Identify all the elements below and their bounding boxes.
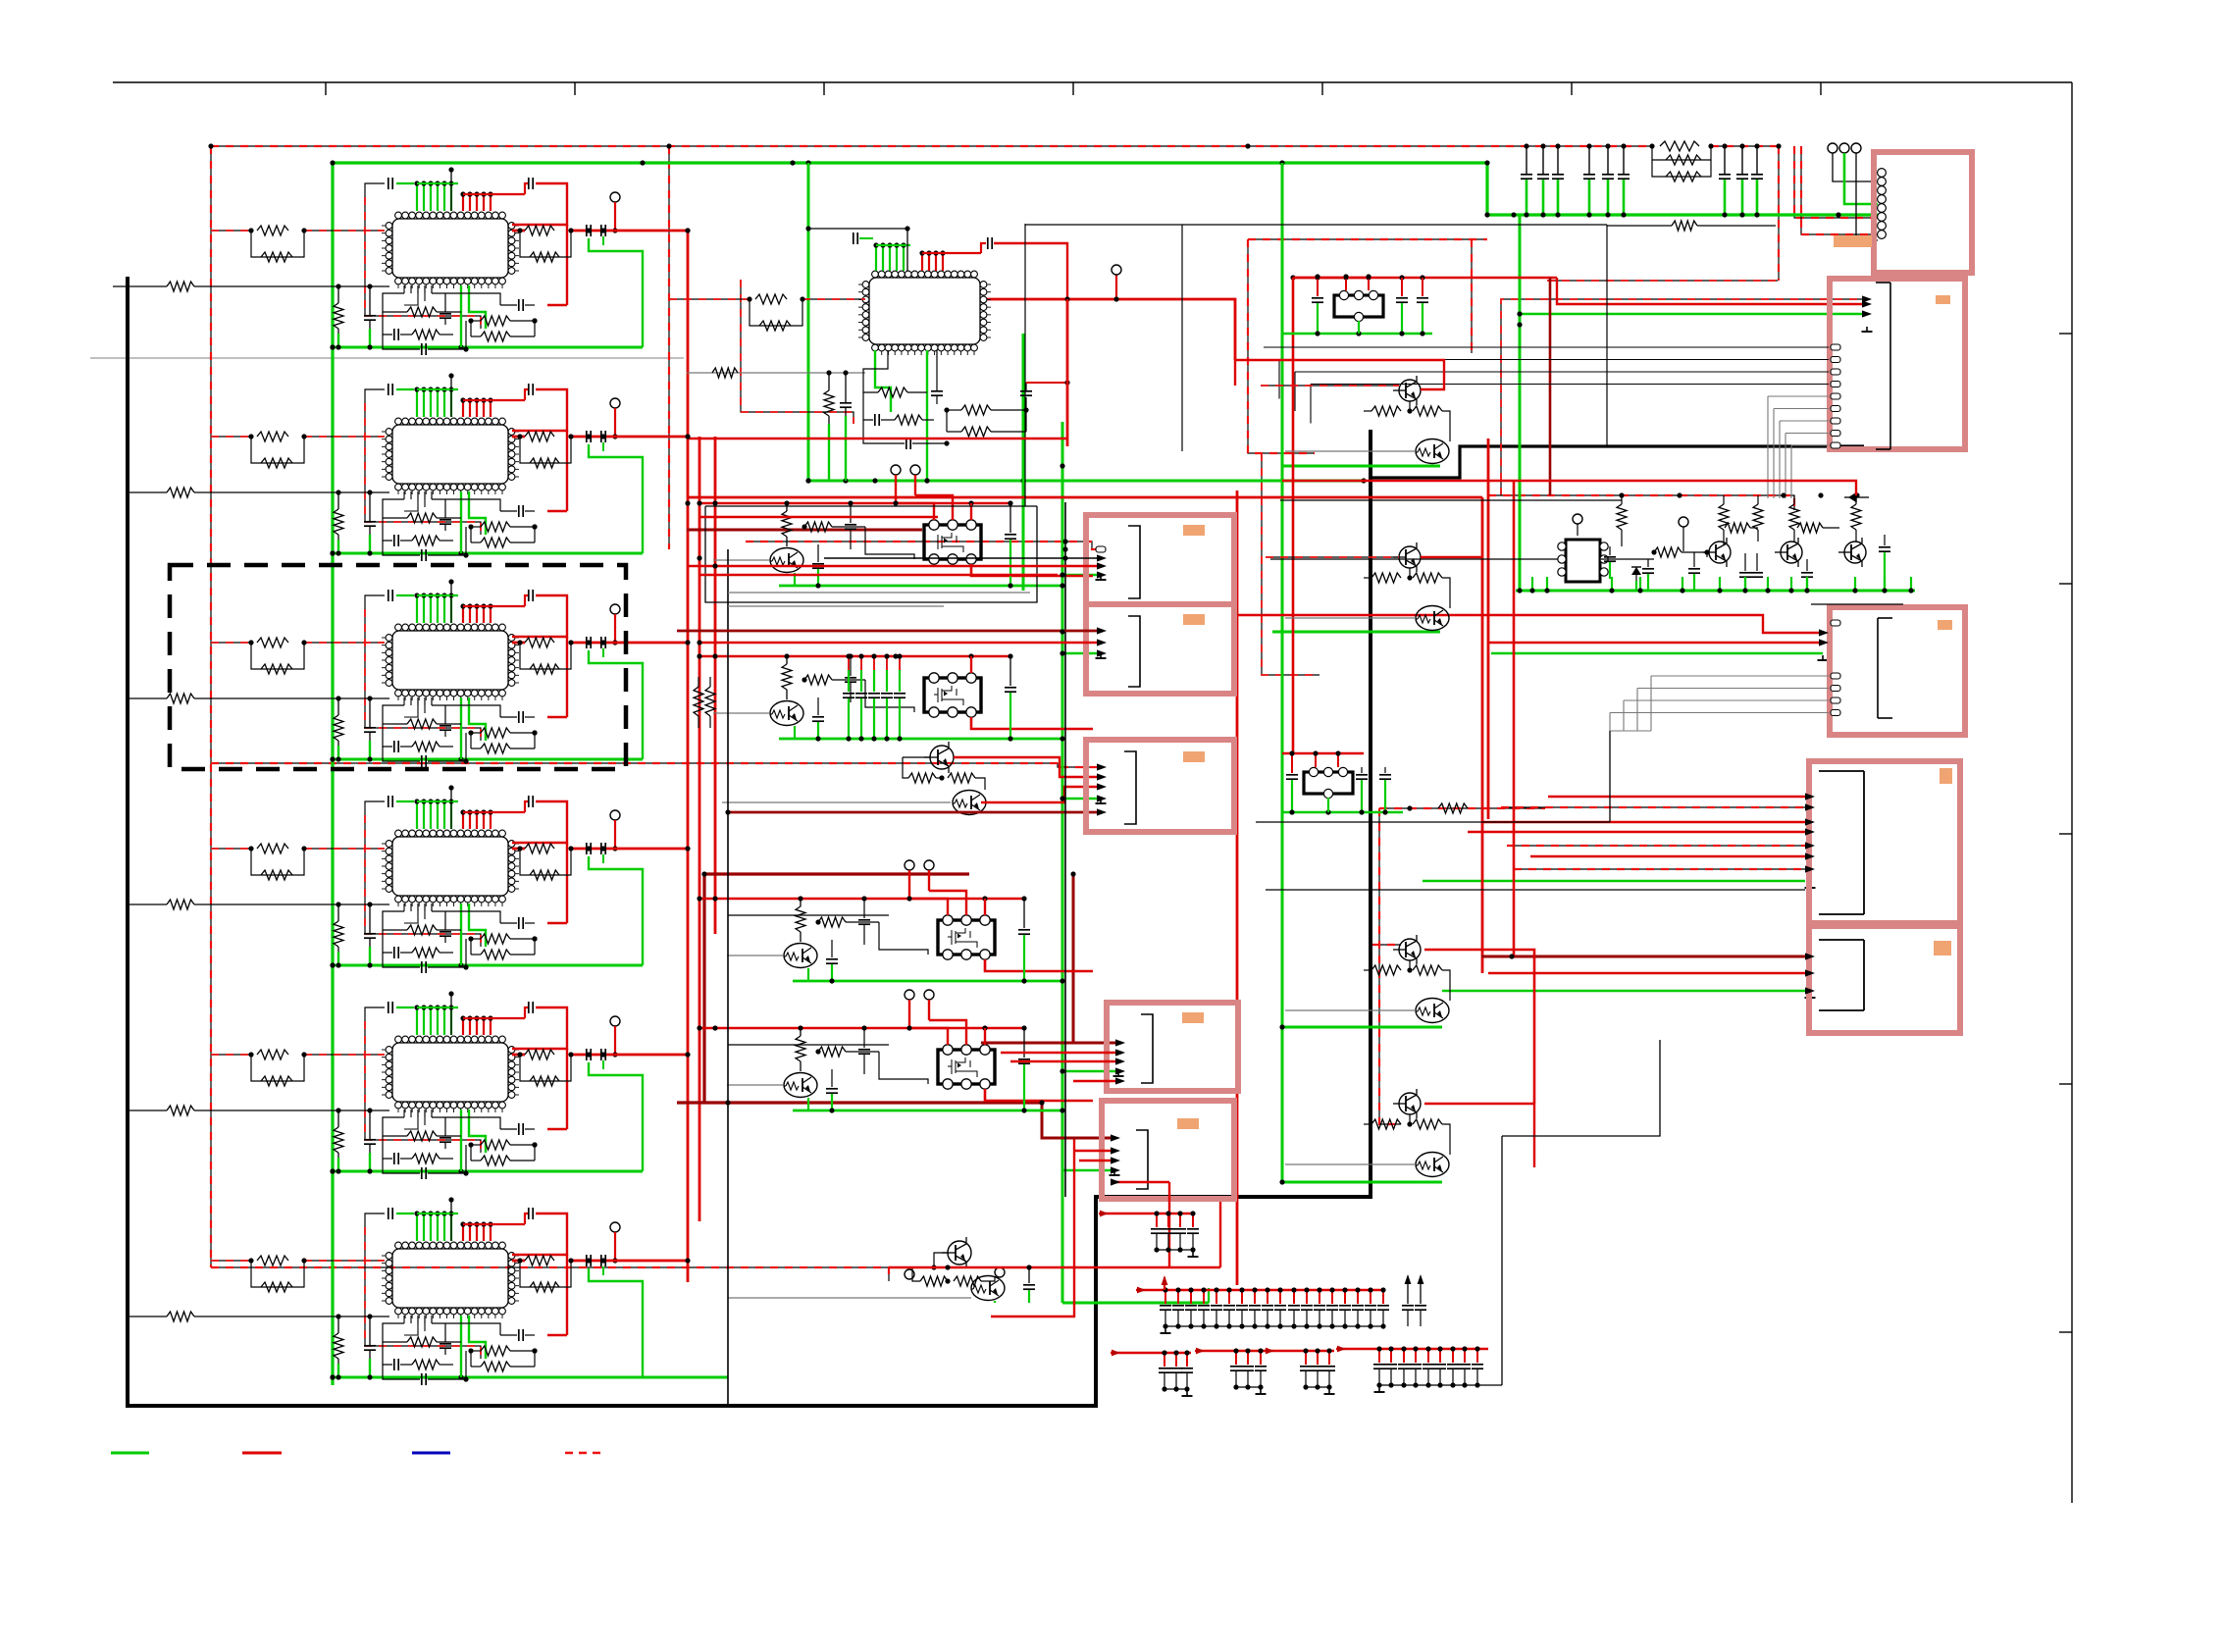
resistor row U7 b xyxy=(947,431,961,433)
red bus above M2 xyxy=(699,655,1012,658)
ground CG-E xyxy=(1328,1389,1330,1394)
connector C1 label xyxy=(1834,235,1872,247)
red wire C3 feed1 xyxy=(1237,615,1823,633)
red long bus y507 xyxy=(687,496,1482,499)
green vertical x1549 xyxy=(1519,215,1522,591)
bottom pin wires U2 xyxy=(403,491,405,499)
capacitor top-right row xyxy=(1526,146,1527,174)
green top bundle U4 xyxy=(416,801,418,829)
transistor QD a xyxy=(1399,1093,1421,1114)
transistor QB b xyxy=(1416,606,1449,631)
connector C4 bracket xyxy=(1819,770,1864,772)
dashed red box right side xyxy=(1471,239,1473,353)
dashed red bus top xyxy=(211,145,1652,147)
wire network U4 xyxy=(383,911,407,930)
bottom pin wires U6 xyxy=(403,1316,405,1323)
thick ground bus border xyxy=(128,277,1371,1406)
black pin wire U2 xyxy=(450,376,452,417)
dashed red loop U7 xyxy=(741,280,854,424)
green pin drop U3 xyxy=(460,697,462,759)
capacitor osc e xyxy=(1806,559,1808,571)
red feed CG-C xyxy=(1111,1352,1140,1354)
red module drop M5 xyxy=(984,1028,986,1045)
capacitor array M2 xyxy=(848,656,850,670)
capacitor right link U3 xyxy=(525,716,535,718)
resistor vertical M1 xyxy=(786,503,788,511)
red output wire U6 xyxy=(512,1260,525,1263)
arrow MB3 c xyxy=(1097,783,1107,790)
red out M1 xyxy=(971,564,1093,576)
capacitor CG-B xyxy=(1241,1290,1243,1304)
capacitor top left U5 xyxy=(388,1002,389,1013)
red wire MB5 b xyxy=(1079,1160,1114,1162)
green stub R U5 xyxy=(337,1158,339,1171)
wire to C3 pin xyxy=(1651,675,1829,677)
capacitor bottom row U1 xyxy=(383,335,420,349)
arrow MB3 d xyxy=(1097,808,1107,815)
capacitor to ground U1 xyxy=(369,286,371,315)
capacitor pair right U1 xyxy=(586,225,588,236)
transistor Q M3a xyxy=(930,746,954,769)
page right ruler line xyxy=(2071,82,2073,1503)
resistor to ground U1 xyxy=(337,286,339,303)
green wire into C3 xyxy=(1491,652,1823,655)
base wire M3 xyxy=(722,801,951,803)
dashed red stub Q base xyxy=(1372,944,1401,946)
red vertical x1095 xyxy=(991,1138,1074,1316)
dashed black box around U3 xyxy=(170,565,626,769)
grey wire to C2 pin xyxy=(1780,420,1829,422)
black vertical x1045 xyxy=(1024,224,1026,506)
connector C2 pin xyxy=(1831,357,1840,363)
green stub C U3 xyxy=(369,741,371,759)
dashed red input U5 xyxy=(211,1054,251,1056)
green bus M5 xyxy=(793,1110,1062,1112)
capacitor CG-B xyxy=(1203,1290,1205,1304)
resistor bottom c U4 xyxy=(471,954,481,955)
black wire M5 row xyxy=(728,1044,889,1046)
dashed red transistor bias net xyxy=(1379,807,1545,809)
wire network U2 xyxy=(383,499,407,518)
connector C3 label xyxy=(1938,620,1952,630)
capacitor low M2 xyxy=(817,697,819,715)
red output wire U1 xyxy=(512,230,525,232)
ground bus CG-D xyxy=(1236,1386,1261,1388)
connector C2 bracket xyxy=(1876,282,1890,284)
resistor bottom b U5 xyxy=(471,1144,481,1146)
arrow C4 xyxy=(1805,803,1815,810)
testpoint TP4 xyxy=(610,810,620,820)
testpoint M6 b xyxy=(995,1267,1005,1277)
dark red vertical x1580 xyxy=(1549,278,1552,495)
transistor osc a xyxy=(1709,542,1731,563)
dashed red QB base xyxy=(1266,556,1399,558)
capacitor bottom row U4 xyxy=(383,953,420,967)
capacitor CG-F xyxy=(1427,1349,1429,1363)
green emitter M1 xyxy=(794,573,796,586)
capacitor CG-C xyxy=(1175,1353,1177,1367)
resistor bottom b U2 xyxy=(471,526,481,528)
resistor bottom a U3 xyxy=(407,719,437,729)
dark red bus M2 xyxy=(677,1101,1042,1104)
connector C1 pin stack xyxy=(1881,171,1883,235)
resistor bottom b U1 xyxy=(471,320,481,322)
red bus CG-E xyxy=(1294,1350,1334,1352)
transistor Q M1 xyxy=(770,548,803,573)
arrow MB3 green xyxy=(1097,795,1107,801)
red elbow to resistor U2 xyxy=(547,510,567,512)
resistor QB a xyxy=(1371,573,1401,583)
resistor QD b xyxy=(1413,1119,1442,1129)
red vertical x1517 xyxy=(1487,439,1490,819)
green bottom elbow xyxy=(1062,1302,1209,1305)
ground MB5 green xyxy=(1113,1170,1115,1175)
resistor horizontal M2 xyxy=(804,675,832,685)
dashed red box around resonator xyxy=(1248,238,1487,240)
capacitor pair right U6 xyxy=(586,1255,588,1266)
arrow up CG-B xyxy=(1407,1276,1409,1304)
capacitor CG-B xyxy=(1216,1290,1217,1304)
red top bundle U1 xyxy=(462,194,464,211)
red top bundle U7 xyxy=(921,253,923,271)
legend green wire sample xyxy=(111,1452,149,1455)
red feed CG-F xyxy=(1336,1348,1366,1350)
connector C5 box xyxy=(1809,926,1960,1033)
arrow C3 b xyxy=(1819,639,1829,645)
testpoint M1 b xyxy=(910,465,920,475)
base wire QA xyxy=(1285,450,1416,452)
red wire into C2 xyxy=(1557,278,1867,304)
red loop right U2 xyxy=(512,389,567,431)
dashed red C1 feed b xyxy=(1801,146,1878,234)
green junction dots top bus xyxy=(330,160,335,165)
green stub MB4 xyxy=(1062,1070,1118,1073)
input line U1 xyxy=(113,285,167,287)
red C2 arrow xyxy=(1862,300,1872,307)
capacitor top-right row xyxy=(1724,146,1726,174)
green top bundle U1 xyxy=(416,183,418,211)
resistor pair left mid xyxy=(694,687,703,716)
red vertical right U4 xyxy=(566,843,568,923)
resistor network top-right xyxy=(1660,141,1699,151)
capacitor bottom a U6 xyxy=(444,1323,446,1342)
ground CG-B xyxy=(1164,1328,1166,1333)
red wire C4 feed2 xyxy=(1482,821,1805,823)
connector MB1 pin xyxy=(1096,546,1106,552)
ground CG-A xyxy=(1192,1252,1194,1257)
capacitor CG-C xyxy=(1164,1353,1165,1367)
connector MB5 label xyxy=(1177,1118,1199,1129)
grey wire y618 xyxy=(728,605,944,607)
resistor to ground U5 xyxy=(337,1110,339,1127)
arrow C4 xyxy=(1805,842,1815,849)
resistor pair right U1 xyxy=(525,226,554,235)
green cap hook U2 xyxy=(589,444,643,553)
capacitor X2 b xyxy=(1361,767,1363,773)
cap to red U7 xyxy=(1025,397,1027,410)
red stub TP4 xyxy=(614,820,616,849)
black pin wire U4 xyxy=(450,788,452,829)
red vertical right U6 xyxy=(566,1255,568,1335)
arrow C2 b xyxy=(1862,310,1872,317)
resistor pair input U3 xyxy=(257,638,288,647)
red wire C4 feed4 xyxy=(1530,855,1805,857)
ground bus CG-B xyxy=(1165,1325,1383,1327)
red TP wire M1 b xyxy=(914,475,916,495)
resistor QA a xyxy=(1371,406,1401,416)
red feed CG-D xyxy=(1195,1350,1224,1352)
wire cap to dashed U3 xyxy=(365,595,385,609)
capacitor right M4 xyxy=(1023,899,1025,928)
hybrid module M2 xyxy=(924,678,981,712)
resistor pair right U3 xyxy=(525,638,554,647)
black wire C4 feed xyxy=(1266,889,1805,891)
capacitor top right U1 xyxy=(528,178,530,189)
hybrid module M4 xyxy=(938,920,995,955)
wire cap to dashed U1 xyxy=(365,183,385,197)
red bus y527 xyxy=(699,516,938,518)
black pin wire U5 xyxy=(450,994,452,1035)
black wire M4 row xyxy=(728,914,889,916)
dark red to MB5 xyxy=(1042,1103,1114,1138)
red bus CG-C xyxy=(1140,1352,1191,1354)
dark red bus M1 xyxy=(704,872,969,875)
connector MB2 bracket xyxy=(1128,616,1140,687)
resistor QC b xyxy=(1413,965,1442,975)
green stub R U4 xyxy=(337,952,339,965)
capacitor CG-D xyxy=(1260,1351,1262,1365)
transistor Q M2 xyxy=(770,701,803,726)
wire to C2 pin xyxy=(1311,384,1829,386)
resonator X1 xyxy=(1334,295,1383,317)
red vertical x1511 xyxy=(1481,497,1484,973)
resistor bottom c U3 xyxy=(471,748,481,749)
ground bus CG-F xyxy=(1379,1384,1477,1386)
dashed red C4 feed b xyxy=(1507,845,1805,847)
green bottom bus U3 xyxy=(333,758,643,761)
dashed red vertical right of top xyxy=(1778,146,1780,281)
capacitor CG-E xyxy=(1328,1351,1330,1365)
input line U3 xyxy=(128,697,167,699)
ruler tick xyxy=(1820,82,1822,95)
ground CG-D xyxy=(1260,1389,1262,1394)
resistor vertical osc c xyxy=(1757,495,1759,504)
resistor pair input U1 xyxy=(257,226,288,235)
capacitor top left U2 xyxy=(388,384,389,395)
transistor osc b xyxy=(1781,542,1802,563)
connector C3 pin xyxy=(1831,697,1840,703)
green emitter M4 xyxy=(807,968,809,981)
testpoint U8 xyxy=(1573,514,1582,524)
connector C2 pin xyxy=(1831,382,1840,387)
capacitor pair right U4 xyxy=(586,843,588,854)
capacitor CG-B xyxy=(1331,1290,1333,1304)
capacitor pair right U3 xyxy=(586,637,588,648)
resistor QD a xyxy=(1371,1119,1401,1129)
resistor to ground U6 xyxy=(337,1316,339,1333)
ground C4 green xyxy=(1809,883,1811,888)
connector C3 pin xyxy=(1831,710,1840,716)
ruler tick xyxy=(1571,82,1573,95)
red TP wire M5 b xyxy=(928,1000,930,1020)
ruler tick xyxy=(2059,833,2072,835)
resistor vertical osc b xyxy=(1723,495,1725,504)
connector MB1 box xyxy=(1086,515,1234,604)
opamp module U8 xyxy=(1566,540,1600,582)
resistor bottom a U6 xyxy=(407,1337,437,1347)
capacitor resistor row U1 xyxy=(383,312,392,335)
connector C4 box xyxy=(1809,761,1960,923)
capacitor osc c xyxy=(1693,552,1695,567)
wire U4 pins xyxy=(404,903,418,923)
resistor M6 b xyxy=(954,1276,981,1286)
wire TP to C1 b xyxy=(1856,153,1878,240)
green wire into C4 xyxy=(1423,880,1805,883)
ruler tick xyxy=(325,82,327,95)
wire cap to dashed U2 xyxy=(365,389,385,403)
capacitor CG-B xyxy=(1254,1290,1256,1304)
capacitor top left U3 xyxy=(388,590,389,601)
resistor M3 b xyxy=(948,773,975,783)
arrow MB1 green xyxy=(1097,571,1107,578)
green vertical x1307 xyxy=(1281,163,1284,1182)
red wire MB5 c xyxy=(1168,1182,1170,1267)
capacitor top-right row xyxy=(1623,146,1625,174)
wire CG-F link xyxy=(1477,1384,1502,1386)
wire M3 xyxy=(903,757,908,778)
capacitor bottom row U7 xyxy=(863,420,905,443)
capacitor top-right row xyxy=(1588,146,1590,174)
capacitor bottom row U6 xyxy=(383,1365,420,1379)
capacitor resistor row U4 xyxy=(383,930,392,953)
connector C2 pin xyxy=(1831,431,1840,437)
capacitor array M2 xyxy=(873,656,875,670)
ruler tick xyxy=(1072,82,1074,95)
green bus X1 xyxy=(1282,333,1432,336)
capacitor CG-B xyxy=(1228,1290,1230,1304)
green pin drop U4 xyxy=(460,903,462,965)
black wire right mid xyxy=(1280,499,1622,501)
resistor pair right U5 xyxy=(525,1050,554,1059)
legend red wire sample xyxy=(242,1452,282,1455)
green stub C U6 xyxy=(369,1359,371,1377)
red elbow to resistor U3 xyxy=(547,716,567,718)
resistor bottom a U4 xyxy=(407,925,437,935)
capacitor mid M1 xyxy=(850,503,852,523)
green right cluster bus B xyxy=(1272,631,1440,634)
green right cluster bus A xyxy=(1281,465,1440,468)
wire to C2 pin xyxy=(1264,346,1829,348)
dashed red inner loop U6 xyxy=(365,1227,481,1359)
wire U6 pins xyxy=(404,1316,418,1335)
testpoint circles above C1 xyxy=(1828,143,1837,153)
connector C3 pin xyxy=(1831,686,1840,692)
resistor QC a xyxy=(1371,965,1401,975)
legend blue wire sample xyxy=(412,1452,450,1455)
red wire M6 xyxy=(889,1266,1220,1268)
red vertical M6 xyxy=(1219,1199,1221,1267)
red trunk vertical c xyxy=(714,437,717,934)
green main vertical bus xyxy=(331,163,334,1385)
connector MB3 box xyxy=(1086,740,1234,832)
ruler tick xyxy=(2059,1083,2072,1085)
dashed red input U1 xyxy=(211,230,251,232)
resistor to ground U3 xyxy=(337,698,339,715)
green cap hook U6 xyxy=(589,1268,643,1377)
junction dots trunks xyxy=(685,500,690,505)
resistor bottom b U4 xyxy=(471,938,481,940)
inductor wire right xyxy=(1607,225,1672,227)
dashed red oscillator row top xyxy=(1488,495,1794,510)
black vertical x1205 xyxy=(1181,225,1183,451)
capacitor right M1 xyxy=(1009,503,1011,533)
capacitor bottom a U2 xyxy=(444,499,446,518)
capacitor pair right U5 xyxy=(586,1049,588,1060)
testpoint TP6 xyxy=(610,1222,620,1232)
bottom pin wires U1 xyxy=(403,285,405,293)
green emitter M5 xyxy=(807,1098,809,1110)
testpoint TP3 xyxy=(610,604,620,614)
green elbow U5 xyxy=(469,1110,486,1153)
IC U7 48-pin QFP xyxy=(869,278,980,344)
ground MB3 green xyxy=(1100,799,1102,803)
grey wire to C2 pin xyxy=(1774,408,1829,410)
transistor Q M6a xyxy=(948,1241,971,1265)
wire network U3 xyxy=(383,705,407,724)
capacitor to ground U5 xyxy=(369,1110,371,1139)
connector C1 box xyxy=(1874,152,1972,273)
connector C5 bracket xyxy=(1819,939,1864,941)
green block6 bus extension xyxy=(643,1376,728,1379)
capacitor right link U6 xyxy=(525,1334,535,1336)
transistor QC a xyxy=(1399,939,1421,960)
resistor osc g xyxy=(1725,523,1750,533)
green stub R U1 xyxy=(337,334,339,347)
testpoint TP1 xyxy=(610,192,620,202)
red wire C4 feed1 xyxy=(1548,796,1805,798)
connector C2 pin xyxy=(1831,406,1840,412)
base wire QC xyxy=(1285,1009,1416,1011)
capacitor low M5 xyxy=(831,1069,833,1087)
wire cap to dashed U5 xyxy=(365,1007,385,1021)
black pin wire U6 xyxy=(450,1200,452,1241)
green elbow U2 xyxy=(469,491,486,535)
ruler tick xyxy=(574,82,576,95)
red wire MB4 c xyxy=(1073,1080,1119,1082)
testpoint M5 a xyxy=(905,990,914,1000)
capacitor top left U6 xyxy=(388,1208,389,1219)
capacitor resistor row U2 xyxy=(383,518,392,541)
resistor pair right U6 xyxy=(525,1256,554,1265)
wire to C3 pin xyxy=(1637,688,1829,690)
red out M5 xyxy=(985,1089,1093,1101)
dashed red inner loop U3 xyxy=(365,609,481,741)
green bus M1 xyxy=(779,585,1062,588)
connector C4 label xyxy=(1940,768,1952,784)
base wire M1 xyxy=(713,559,769,561)
wire QD xyxy=(1409,1114,1411,1124)
capacitor bottom row U2 xyxy=(383,541,420,555)
green emitter wire C xyxy=(1282,1026,1442,1029)
arrow C5 xyxy=(1805,969,1815,976)
dashed red C2 feed xyxy=(1501,299,1867,495)
green bus M2 xyxy=(779,738,1062,741)
connector MB5 bracket xyxy=(1136,1130,1148,1189)
red output wire U3 xyxy=(512,642,525,645)
red loop right U5 xyxy=(512,1007,567,1049)
red top bundle U6 xyxy=(462,1224,464,1241)
green wire TP to C1 xyxy=(1844,153,1878,204)
